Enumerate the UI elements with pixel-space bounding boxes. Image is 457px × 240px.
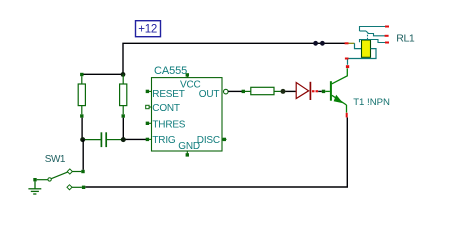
pin TRIG stub	[146, 138, 152, 141]
svg-text:CA555: CA555	[154, 65, 187, 77]
capacitor C1	[85, 132, 122, 147]
relay RL1 contact set	[360, 27, 387, 43]
svg-text:DISC: DISC	[197, 135, 220, 146]
power label +12	[136, 21, 161, 37]
pin DISC stub	[222, 138, 227, 141]
node cap left junction	[80, 137, 85, 142]
pin tick relay coil left	[345, 42, 349, 44]
pin RESET stub	[146, 90, 152, 93]
relay RL1 coil	[362, 40, 371, 57]
node R3-diode junction	[281, 89, 286, 94]
svg-text:SW1: SW1	[45, 154, 66, 165]
pin tick T1 emitter	[346, 113, 348, 118]
svg-text:RESET: RESET	[152, 89, 184, 100]
resistor R3	[242, 87, 281, 94]
node cap right junction	[121, 137, 126, 142]
svg-text:GND: GND	[178, 141, 200, 152]
wire switch to cap junction	[82, 140, 84, 170]
node junction rail/R2	[121, 72, 126, 77]
pin tick relay contact 1	[385, 26, 389, 28]
resistor R2	[120, 74, 127, 117]
wire coil right lead	[348, 49, 377, 65]
pin VCC stub	[186, 73, 189, 77]
svg-text:CONT: CONT	[152, 103, 180, 114]
svg-text:RL1: RL1	[396, 32, 415, 44]
pin ticks diode cathode	[312, 90, 315, 92]
wire +12 rail	[123, 43, 346, 74]
svg-text:OUT: OUT	[199, 89, 220, 100]
pin name texts	[152, 79, 220, 152]
IC U1 CA555 box	[152, 78, 223, 151]
svg-text:T1 !NPN: T1 !NPN	[353, 97, 390, 108]
wire junction to diode	[285, 90, 295, 92]
wire resistor top rail	[82, 73, 123, 75]
wire OUT to R3	[228, 90, 242, 92]
svg-text:THRES: THRES	[152, 119, 185, 130]
pin GND stub	[186, 151, 189, 157]
transistor T1	[322, 68, 348, 112]
switch SW1	[33, 169, 85, 190]
node dot on +12 rail 2	[320, 41, 325, 46]
ground	[28, 181, 41, 194]
svg-text:TRIG: TRIG	[152, 135, 176, 146]
wire diode to base	[318, 90, 322, 92]
pin THRES stub	[146, 122, 152, 125]
pin OUT circle	[224, 89, 229, 94]
wire cap junction to TRIG pin	[126, 138, 147, 140]
node dot on +12 rail 1	[313, 41, 318, 46]
pin tick relay contact 2	[385, 35, 389, 37]
wire R2 bottom to cap junction	[122, 118, 124, 140]
wire emitter to ground rail	[85, 118, 347, 188]
pin tick T1 collector	[346, 65, 349, 68]
diode D1	[296, 82, 310, 100]
svg-text:+12: +12	[138, 24, 157, 36]
resistor R1	[78, 73, 85, 118]
pin tick relay contact 3	[385, 42, 389, 44]
pin CONT stub	[146, 105, 152, 108]
wire R1 bottom to cap junction	[81, 118, 83, 140]
pin tick relay coil right	[345, 58, 349, 60]
wire coil left lead	[349, 43, 362, 48]
